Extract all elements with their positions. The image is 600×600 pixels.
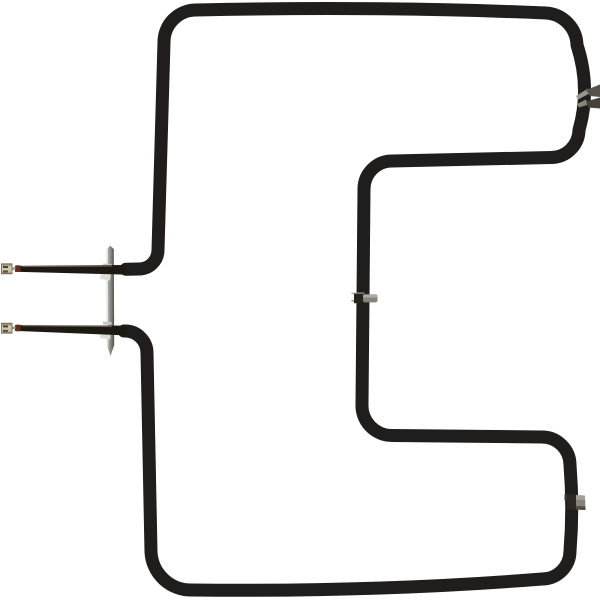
bracket tab lower — [100, 322, 112, 340]
spade connector lower — [2, 323, 13, 333]
terminal rod lower — [15, 325, 126, 335]
terminal pin upper — [10, 267, 18, 270]
terminal rod upper — [15, 265, 126, 275]
bracket tab upper — [100, 264, 112, 281]
spade connector upper — [2, 264, 13, 274]
support clip bottom-right — [565, 494, 586, 510]
insulator bead upper — [16, 265, 21, 272]
mounting bracket plate — [107, 246, 115, 357]
terminal pin lower — [10, 327, 18, 330]
heating element tube — [124, 9, 585, 591]
support clip middle — [352, 293, 378, 304]
support clip right-top — [576, 85, 600, 109]
insulator bead lower — [16, 325, 21, 332]
